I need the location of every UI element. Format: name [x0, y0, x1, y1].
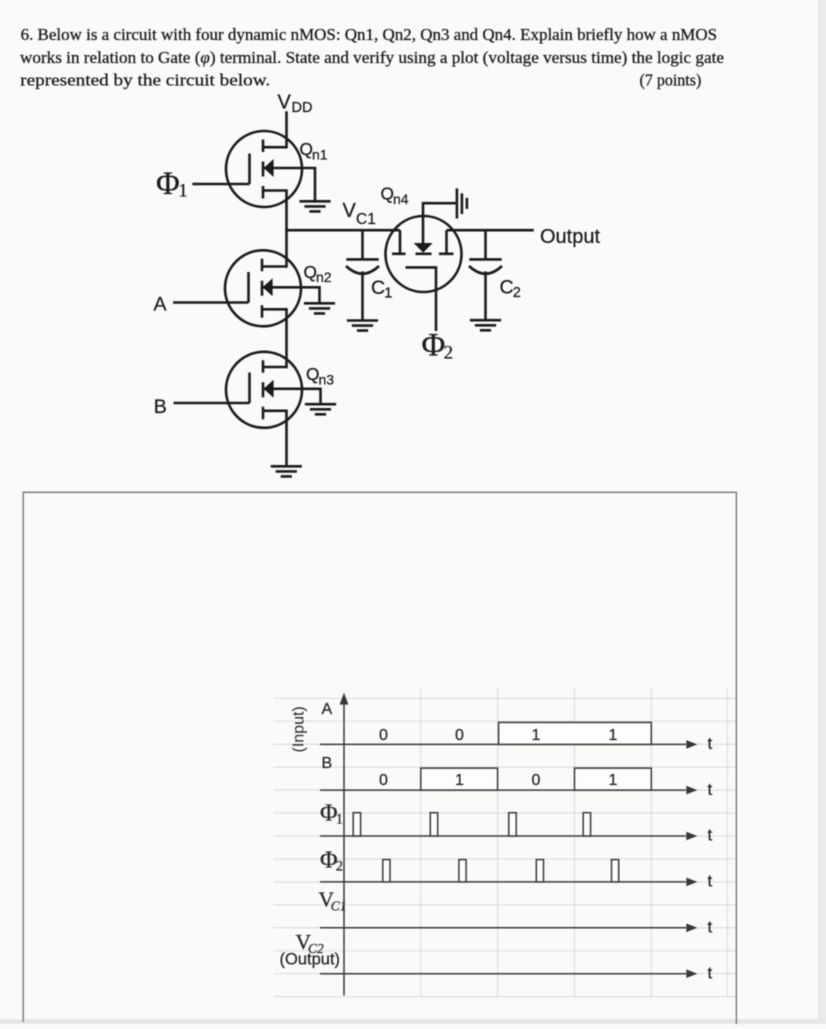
svg-text:1: 1 [609, 772, 618, 789]
svg-text:B: B [322, 755, 333, 772]
svg-text:C: C [500, 277, 514, 299]
svg-text:V: V [278, 92, 292, 114]
svg-text:t: t [708, 918, 713, 937]
svg-text:1: 1 [455, 772, 464, 789]
svg-text:C: C [371, 277, 385, 299]
svg-text:Φ: Φ [156, 166, 180, 202]
svg-text:n1: n1 [312, 146, 328, 162]
svg-text:(Output): (Output) [280, 950, 341, 968]
svg-text:2: 2 [444, 342, 454, 363]
svg-text:(7 points): (7 points) [640, 71, 702, 90]
svg-text:t: t [708, 872, 713, 891]
svg-text:Q: Q [304, 262, 317, 282]
svg-text:0: 0 [379, 727, 388, 744]
svg-text:represented by the circuit bel: represented by the circuit below. [20, 71, 270, 90]
svg-text:1: 1 [336, 812, 343, 828]
svg-text:C1: C1 [356, 211, 376, 228]
svg-text:V: V [343, 200, 357, 222]
svg-text:0: 0 [379, 772, 388, 789]
svg-text:0: 0 [532, 772, 541, 789]
svg-text:n3: n3 [319, 372, 335, 388]
svg-text:1: 1 [178, 181, 188, 202]
svg-text:Q: Q [306, 364, 319, 384]
svg-text:t: t [708, 780, 713, 799]
svg-text:t: t [708, 734, 713, 753]
svg-text:A: A [322, 701, 333, 718]
svg-text:n4: n4 [393, 191, 409, 207]
svg-text:2: 2 [513, 285, 521, 301]
svg-text:Φ: Φ [422, 327, 446, 363]
svg-text:(Input): (Input) [291, 706, 308, 752]
svg-text:DD: DD [292, 100, 313, 116]
svg-text:C1: C1 [331, 898, 347, 913]
svg-text:6. Below is a circuit with fou: 6. Below is a circuit with four dynamic … [21, 25, 718, 44]
svg-text:Q: Q [381, 184, 394, 204]
svg-text:1: 1 [532, 727, 541, 744]
svg-text:1: 1 [609, 727, 618, 744]
svg-text:A: A [154, 293, 167, 315]
svg-text:Output: Output [540, 226, 600, 248]
svg-text:0: 0 [455, 727, 464, 744]
svg-text:Q: Q [300, 139, 313, 159]
svg-text:works in relation to Gate (φ): works in relation to Gate (φ) terminal. … [20, 48, 724, 67]
svg-text:2: 2 [336, 859, 343, 875]
svg-text:t: t [708, 963, 713, 982]
svg-text:t: t [708, 826, 713, 845]
svg-text:B: B [154, 396, 167, 418]
svg-text:n2: n2 [316, 269, 332, 285]
svg-text:1: 1 [384, 286, 392, 302]
